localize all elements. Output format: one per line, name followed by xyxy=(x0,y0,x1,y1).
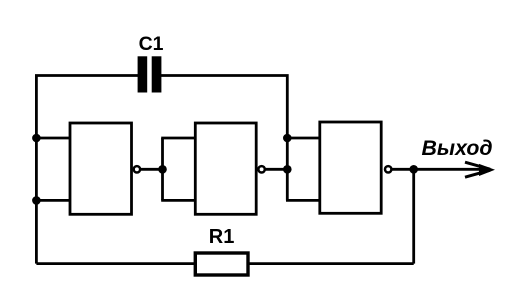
wire: U3 output to output node and arrow shaft xyxy=(392,168,488,171)
node: junction dot at U2 input tie xyxy=(158,165,167,174)
wire: U3 upper input stub xyxy=(286,137,320,140)
output arrowhead xyxy=(465,162,495,177)
wire: left input rail (vertical) xyxy=(35,136,38,264)
svg-text:R1: R1 xyxy=(209,226,235,248)
node: output junction dot xyxy=(409,165,418,174)
wire: U2 output to x=287 rail xyxy=(265,168,287,171)
inversion bubble of U1 xyxy=(134,166,140,172)
wire: top feedback from left rail to C1 left plate xyxy=(36,76,138,139)
wire: feedback drop from output node xyxy=(412,169,415,263)
wire: gate U1 lower input stub xyxy=(36,199,70,202)
resistor R1 xyxy=(195,253,248,275)
wire: bottom feedback, right segment to R1 xyxy=(248,262,414,265)
inversion bubble of U2 xyxy=(258,166,264,172)
wire: bottom feedback, left segment from R1 to left rail xyxy=(36,262,195,265)
svg-text:Выход: Выход xyxy=(422,136,493,160)
wire: U3 lower input stub xyxy=(286,199,320,202)
inversion bubble of U3 xyxy=(385,166,391,172)
svg-text:C1: C1 xyxy=(139,33,164,55)
wire: U2 lower input stub xyxy=(161,199,195,202)
capacitor C1 xyxy=(138,56,162,92)
node: junction dot on left rail, lower xyxy=(32,196,41,205)
wire: U3 input tie vertical xyxy=(286,136,289,200)
wire: U1 output to U2 input tie xyxy=(140,168,162,171)
node: junction dot, U2 output joins rail xyxy=(283,165,292,174)
wire: C1 right plate to right vertical drop at x=287 xyxy=(161,76,288,139)
inverter U2 (logic element body) xyxy=(195,123,256,214)
wire: U2 input tie vertical xyxy=(161,138,164,200)
inverter U3 (logic element body) xyxy=(320,122,381,213)
node: junction dot on left rail, upper xyxy=(32,134,41,143)
wire: U2 upper input stub xyxy=(161,137,195,140)
inverter U1 (logic element body) xyxy=(70,123,132,214)
wire: gate U1 upper input stub xyxy=(36,137,70,140)
node: junction dot, rail upper branch xyxy=(283,134,292,143)
